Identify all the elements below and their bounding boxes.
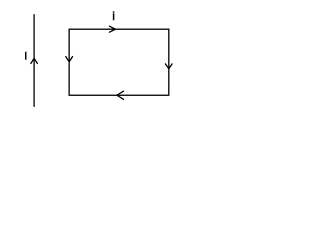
arrowhead: leftward on bottom side of loop [117,91,124,99]
arrowhead: downward on left side of loop [66,57,73,62]
arrowhead: downward on right side of loop [165,64,172,69]
arrowhead: current i rightward on top side of loop [109,26,115,32]
wire: straight conductor carrying current I [33,14,35,107]
svg-text:I: I [24,51,27,63]
svg-text:i: i [112,9,115,23]
arrowhead: current I upward on wire [31,58,37,63]
loop: rectangular circuit [69,29,169,95]
